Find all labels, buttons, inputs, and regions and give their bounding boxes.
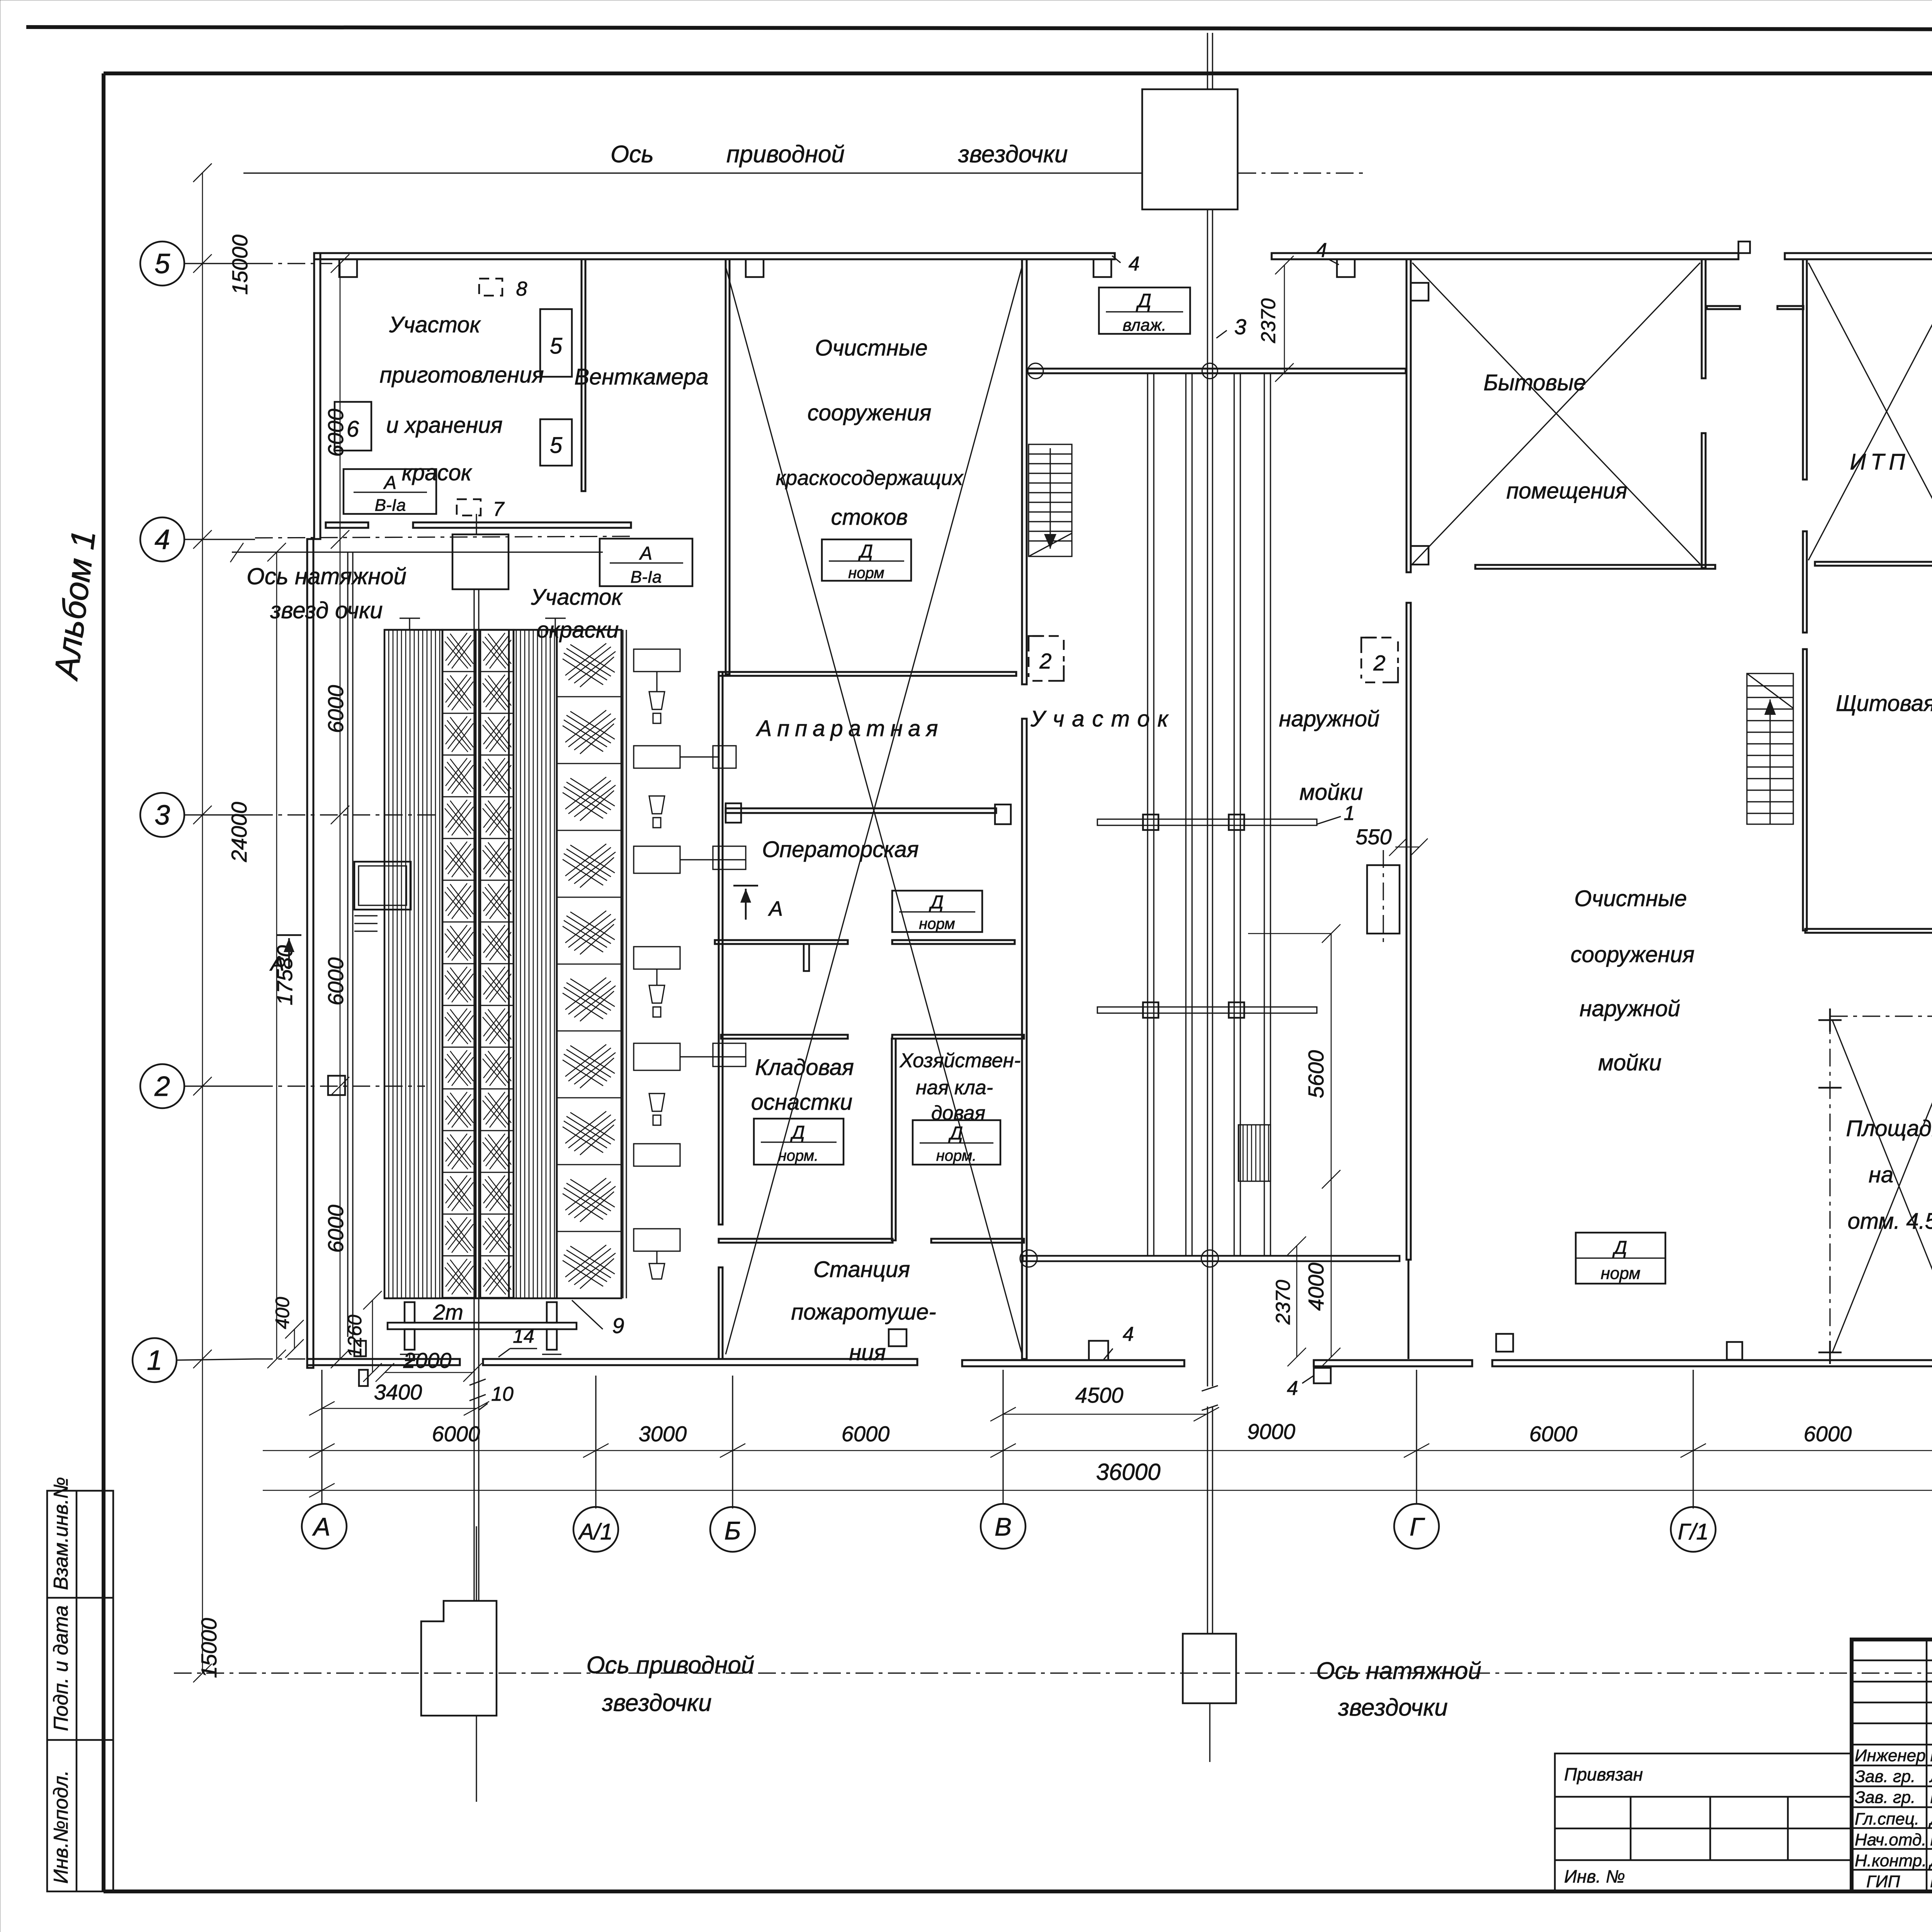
svg-text:6000: 6000	[842, 1422, 890, 1446]
axis circle В	[981, 1504, 1026, 1549]
svg-text:5: 5	[550, 333, 563, 359]
wall: мойка right / бытовые-очистные left (x3645)	[1406, 259, 1411, 572]
axis circle А/1	[573, 1507, 618, 1552]
X crosses over rooms	[726, 263, 1932, 1364]
svg-text:4: 4	[155, 524, 170, 555]
svg-text:Н.контр.: Н.контр.	[1855, 1851, 1927, 1870]
svg-text:норм: норм	[1601, 1264, 1641, 1283]
dim 36000	[263, 1490, 1932, 1491]
svg-text:Операторская: Операторская	[762, 837, 919, 862]
svg-text:Станция: Станция	[813, 1257, 910, 1282]
wall: top of участок наружной мойки	[1027, 369, 1406, 373]
svg-text:4: 4	[1316, 239, 1327, 262]
svg-text:3: 3	[155, 800, 170, 831]
svg-text:Альбом 1: Альбом 1	[46, 528, 103, 683]
svg-text:мойки: мойки	[1299, 780, 1363, 805]
svg-text:А: А	[383, 473, 396, 493]
svg-text:В: В	[995, 1512, 1012, 1541]
svg-text:влаж.: влаж.	[1122, 316, 1166, 335]
top sprocket box	[1142, 89, 1238, 209]
top axis line: ось приводной звездочки	[243, 172, 1143, 173]
frame bottom	[104, 1889, 1932, 1893]
svg-text:А: А	[312, 1512, 330, 1541]
svg-text:14: 14	[513, 1325, 534, 1347]
staircase left of wash bay	[1029, 444, 1072, 556]
svg-text:норм.: норм.	[778, 1147, 819, 1164]
wall: операторская bottom	[715, 940, 848, 944]
dim 2370 low	[1296, 1246, 1298, 1357]
svg-text:4: 4	[1287, 1377, 1298, 1400]
wall: middle rooms right (x2650)	[1022, 259, 1027, 684]
svg-text:Венткамера: Венткамера	[574, 364, 708, 389]
wall: бытовые right (x4410)	[1702, 259, 1706, 378]
svg-text:1: 1	[147, 1345, 162, 1376]
cross очистные стоков + аппаратная/операторская	[726, 267, 1022, 1354]
svg-text:Ось приводной: Ось приводной	[587, 1652, 755, 1679]
wall: аппаратная / операторская	[726, 808, 996, 813]
category boxes Д/влаж and Д/норм	[335, 278, 1665, 1284]
top exterior wall right segment	[1785, 253, 1932, 259]
svg-text:Д: Д	[790, 1122, 805, 1143]
svg-text:Подп. и дата: Подп. и дата	[50, 1605, 72, 1731]
svg-text:6: 6	[347, 417, 359, 442]
svg-text:9: 9	[612, 1313, 624, 1338]
площадка dash-dot outline	[1829, 1016, 1830, 1354]
room labels and equipment tags	[379, 312, 1932, 1365]
bottom sprocket box (L shaped)	[421, 1601, 497, 1716]
striped band left	[384, 630, 442, 1298]
paint conveyor (ось натяжной звездочки)	[348, 514, 514, 1802]
svg-text:Щитовая: Щитовая	[1836, 691, 1932, 716]
svg-text:6000: 6000	[323, 685, 348, 733]
right rail	[622, 630, 623, 1298]
svg-text:Донин: Донин	[1928, 1851, 1932, 1870]
svg-text:Д: Д	[948, 1123, 963, 1144]
axis circle 5	[140, 241, 184, 286]
svg-text:2370: 2370	[1272, 1280, 1294, 1325]
center gap with conveyor dashes	[476, 630, 509, 1298]
svg-text:15000: 15000	[228, 235, 252, 295]
svg-text:4000: 4000	[1304, 1263, 1328, 1311]
wall: middle rooms left (аппаратная/операторская/кладовые)	[719, 672, 723, 1225]
svg-text:3400: 3400	[374, 1380, 422, 1404]
frame left	[102, 73, 105, 1891]
axis circle Б	[710, 1507, 755, 1552]
svg-text:5600: 5600	[1304, 1050, 1328, 1099]
svg-text:6000: 6000	[1804, 1422, 1852, 1446]
svg-text:и хранения: и хранения	[386, 413, 502, 438]
main outline	[1852, 1639, 1932, 1891]
svg-text:Инв.№подл.: Инв.№подл.	[50, 1770, 72, 1884]
hatch box between rails	[1238, 1125, 1270, 1181]
signature rows text	[1855, 1746, 1932, 1891]
box А/В-Iа right	[600, 539, 692, 586]
svg-text:3: 3	[1234, 315, 1246, 339]
svg-text:красок: красок	[402, 460, 473, 485]
bottom crossbar	[388, 1323, 577, 1329]
top exterior wall left segment	[314, 253, 1115, 259]
break marks	[1202, 1386, 1218, 1410]
crossbeam 2	[1097, 1007, 1317, 1013]
marker 2 (right)	[1361, 638, 1398, 682]
axis circle 1	[133, 1338, 177, 1382]
box А/В-Iа left	[344, 469, 436, 514]
bottom letter axis circles	[302, 1370, 1932, 1552]
wall: bottom of кладовые	[719, 1239, 893, 1243]
top exterior wall over мойка gap piece	[1272, 253, 1738, 259]
wall: кладовая / хоз.кладовая	[892, 1039, 896, 1240]
svg-text:4: 4	[1129, 253, 1140, 275]
dim 2370 top	[1284, 265, 1285, 372]
bottom axis line	[174, 1672, 1932, 1673]
axis circle 2	[140, 1064, 184, 1108]
dim 3400 bottom	[322, 1408, 476, 1409]
striped band right	[514, 630, 557, 1298]
svg-text:Привязан: Привязан	[1564, 1764, 1643, 1784]
wall: венткамера / очистные стоков	[726, 259, 730, 674]
marker 8	[479, 279, 502, 296]
svg-text:Гл.спец.: Гл.спец.	[1855, 1810, 1919, 1828]
svg-text:звезд очки: звезд очки	[270, 597, 383, 623]
svg-text:Хозяйствен-: Хозяйствен-	[900, 1049, 1021, 1072]
svg-text:24000: 24000	[227, 802, 251, 862]
column marks lower	[328, 1076, 345, 1095]
svg-text:2370: 2370	[1257, 298, 1280, 344]
conveyor line down through plan	[1207, 209, 1208, 1386]
box Д/норм (операторская)	[892, 891, 982, 932]
svg-text:Участок: Участок	[389, 312, 481, 337]
chain 6000 per span	[340, 264, 341, 1359]
svg-text:ния: ния	[849, 1340, 886, 1365]
svg-text:отм. 4.500: отм. 4.500	[1847, 1209, 1932, 1234]
svg-text:6000: 6000	[323, 957, 348, 1006]
svg-text:Д: Д	[1136, 290, 1151, 311]
column marks on top wall	[339, 259, 357, 277]
equipment box 6	[335, 402, 371, 451]
x-cell column 1	[442, 630, 476, 1298]
svg-text:Нано: Нано	[1930, 1830, 1932, 1849]
svg-text:мойки: мойки	[1598, 1050, 1662, 1075]
svg-text:А/1: А/1	[578, 1519, 612, 1544]
svg-text:пожаротуше-: пожаротуше-	[791, 1299, 936, 1325]
axis circle 3	[140, 793, 184, 837]
svg-text:оснастки: оснастки	[751, 1090, 852, 1115]
svg-text:7: 7	[493, 498, 505, 520]
svg-text:А: А	[639, 543, 652, 564]
bottom dimension chains	[263, 1348, 1932, 1497]
svg-text:Инв. №: Инв. №	[1564, 1866, 1625, 1886]
left signature table columns	[1926, 1639, 1928, 1891]
svg-text:норм.: норм.	[936, 1147, 977, 1164]
svg-text:Г/1: Г/1	[1678, 1519, 1709, 1544]
axis circle Г	[1394, 1504, 1439, 1549]
wall: участок приготовления / венткамера	[582, 259, 585, 491]
staircase щитовая	[1747, 673, 1793, 824]
svg-text:2: 2	[1373, 651, 1385, 675]
T marks on top	[400, 618, 566, 630]
bottom sprocket box	[1183, 1634, 1236, 1703]
dim row 6000/3000/6000/9000/6000/6000	[263, 1450, 1932, 1451]
svg-text:5: 5	[155, 248, 170, 279]
section mark A (operator room)	[733, 886, 758, 920]
bottom exterior wall segments	[307, 1359, 460, 1365]
svg-text:Б: Б	[724, 1516, 741, 1545]
equipment box 5 lower	[540, 419, 572, 466]
spray chamber column	[557, 630, 621, 1298]
svg-text:Нач.отд.: Нач.отд.	[1855, 1830, 1926, 1849]
svg-text:2: 2	[1039, 649, 1051, 673]
wall: top of кладовые	[721, 1035, 848, 1039]
svg-text:Взам.инв.№: Взам.инв.№	[50, 1477, 72, 1590]
svg-text:1: 1	[1344, 802, 1355, 825]
left exterior wall	[314, 253, 320, 539]
sprayer units right of machine	[634, 649, 746, 1279]
box Д/норм (стоки)	[822, 539, 911, 581]
wall: top of аппаратная	[719, 672, 1016, 676]
axis circle Г/1	[1671, 1507, 1716, 1552]
svg-text:Булавин: Булавин	[1930, 1872, 1932, 1891]
svg-text:2: 2	[154, 1071, 170, 1102]
section mark A (left of machine)	[277, 935, 301, 969]
svg-text:Д: Д	[858, 541, 873, 562]
cross итп	[1808, 263, 1932, 560]
svg-text:Кладовая: Кладовая	[755, 1055, 854, 1080]
svg-text:6000: 6000	[1529, 1422, 1578, 1446]
svg-text:Донин: Донин	[1928, 1810, 1932, 1828]
svg-text:приготовления: приготовления	[379, 362, 544, 388]
wall on axis 4 (bottom of top-left rooms)	[326, 522, 368, 528]
tunnel bottom	[1023, 1256, 1400, 1261]
rows	[1852, 1660, 1932, 1662]
svg-text:В-Iа: В-Iа	[375, 496, 406, 515]
svg-text:Ось: Ось	[611, 141, 654, 168]
svg-text:наружной: наружной	[1279, 706, 1380, 731]
svg-text:6000: 6000	[432, 1422, 480, 1446]
left protruding box	[354, 862, 411, 910]
svg-text:наружной: наружной	[1580, 996, 1680, 1021]
box Д/норм (хоз кладовая)	[913, 1120, 1000, 1165]
svg-text:ная кла-: ная кла-	[916, 1077, 993, 1099]
svg-text:Д: Д	[1612, 1238, 1627, 1258]
box Д/норм (наружная мойка)	[1576, 1233, 1665, 1284]
svg-text:стоков: стоков	[831, 505, 908, 530]
привязан table	[1555, 1753, 1852, 1891]
svg-text:ГИП: ГИП	[1866, 1872, 1900, 1891]
box Д/норм (кладовая)	[754, 1119, 844, 1165]
wall: итп bottom	[1815, 562, 1932, 566]
svg-text:Очистные: Очистные	[1574, 886, 1687, 911]
svg-text:Ось натяжной: Ось натяжной	[247, 563, 406, 589]
svg-text:Участок: Участок	[531, 585, 623, 610]
svg-text:помещения: помещения	[1507, 478, 1628, 503]
grid axes: left numbered circles with leaders	[133, 241, 630, 1382]
svg-text:звездочки: звездочки	[1338, 1694, 1448, 1721]
площадка corner ticks	[1818, 1009, 1932, 1364]
svg-text:8: 8	[516, 278, 527, 300]
marker 2 (left)	[1029, 636, 1064, 681]
wall: щитовая left	[1803, 649, 1807, 930]
svg-text:550: 550	[1355, 825, 1391, 849]
svg-text:звездочки: звездочки	[958, 141, 1068, 168]
svg-text:Зав. гр.: Зав. гр.	[1855, 1788, 1915, 1807]
crossbeam 1	[1097, 819, 1317, 825]
svg-text:2m: 2m	[433, 1300, 463, 1324]
dim 4000	[1331, 1179, 1332, 1357]
chain 17580	[276, 552, 277, 1359]
paint machine (участок окраски)	[354, 618, 746, 1361]
chain 24000/15000	[202, 173, 203, 1673]
svg-text:приводной: приводной	[726, 141, 845, 168]
svg-text:15000: 15000	[197, 1618, 221, 1678]
left stamp strip	[47, 1491, 113, 1891]
svg-text:А: А	[269, 952, 284, 975]
svg-text:Рапутова: Рапутова	[1930, 1788, 1932, 1807]
door stubs in corridor	[1707, 306, 1740, 309]
cross площадка	[1832, 1020, 1932, 1352]
svg-text:сооружения: сооружения	[1571, 942, 1695, 967]
svg-text:Очистные: Очистные	[815, 335, 928, 361]
svg-text:на: на	[1869, 1162, 1893, 1187]
axis circle А	[302, 1504, 347, 1549]
cross бытовые	[1412, 263, 1700, 564]
svg-text:36000: 36000	[1096, 1459, 1161, 1485]
svg-text:А: А	[768, 897, 783, 920]
title block	[1555, 1639, 1932, 1927]
svg-text:Д: Д	[929, 892, 944, 913]
sprocket axis lines and labels	[174, 141, 1932, 1721]
wall: итп left (x4670)	[1803, 259, 1807, 480]
equipment box 5 upper	[540, 309, 572, 377]
svg-text:Палиенко: Палиенко	[1930, 1746, 1932, 1765]
axis circle 4	[140, 517, 184, 561]
wall: щитовая bottom	[1805, 929, 1932, 933]
dim 2000	[385, 1372, 473, 1373]
tunnel rails	[1148, 373, 1270, 1257]
svg-text:норм: норм	[919, 915, 955, 932]
wash conveyor + tunnel (участок наружной мойки)	[1020, 33, 1428, 1762]
wall: бытовые bottom	[1475, 565, 1715, 569]
machine outline top/bottom	[384, 629, 557, 631]
svg-text:сооружения: сооружения	[808, 400, 932, 425]
box Д/влаж	[1099, 287, 1190, 334]
svg-text:4: 4	[1123, 1323, 1134, 1345]
building walls	[307, 239, 1932, 1400]
frame top	[104, 71, 1932, 75]
left return rail	[347, 552, 348, 1337]
svg-text:Г: Г	[1410, 1512, 1425, 1541]
svg-text:5: 5	[550, 433, 563, 458]
top sprocket box	[452, 534, 509, 589]
svg-text:400: 400	[272, 1297, 293, 1329]
svg-text:Литовченко: Литовченко	[1929, 1767, 1932, 1786]
svg-text:10: 10	[491, 1383, 514, 1405]
box on wall with 550	[1367, 865, 1400, 934]
svg-text:норм: норм	[848, 565, 884, 582]
svg-text:6000: 6000	[323, 409, 348, 457]
svg-text:краскосодержащих: краскосодержащих	[776, 466, 964, 490]
svg-text:4500: 4500	[1075, 1383, 1124, 1407]
svg-text:3000: 3000	[639, 1422, 687, 1446]
svg-text:В-Iа: В-Iа	[631, 568, 662, 587]
left dimension chains	[193, 163, 382, 1682]
svg-text:звездочки: звездочки	[602, 1690, 712, 1716]
label ось натяжной звездочки (mid, axis 4)	[232, 551, 603, 553]
svg-text:6000: 6000	[323, 1205, 348, 1253]
dim 4500	[1003, 1414, 1206, 1415]
outer sheet top line	[26, 27, 1932, 30]
x-cell column 2	[480, 630, 514, 1298]
svg-text:9000: 9000	[1247, 1419, 1296, 1444]
stairs	[269, 444, 1793, 975]
dim 5600	[1331, 934, 1332, 1179]
conveyor drop line	[473, 589, 474, 1601]
marker 7	[457, 499, 481, 515]
svg-text:ИТП: ИТП	[1850, 449, 1910, 474]
svg-text:Инженер: Инженер	[1855, 1746, 1926, 1765]
svg-text:Ось натяжной: Ось натяжной	[1316, 1658, 1481, 1684]
svg-text:Зав. гр.: Зав. гр.	[1855, 1767, 1915, 1786]
